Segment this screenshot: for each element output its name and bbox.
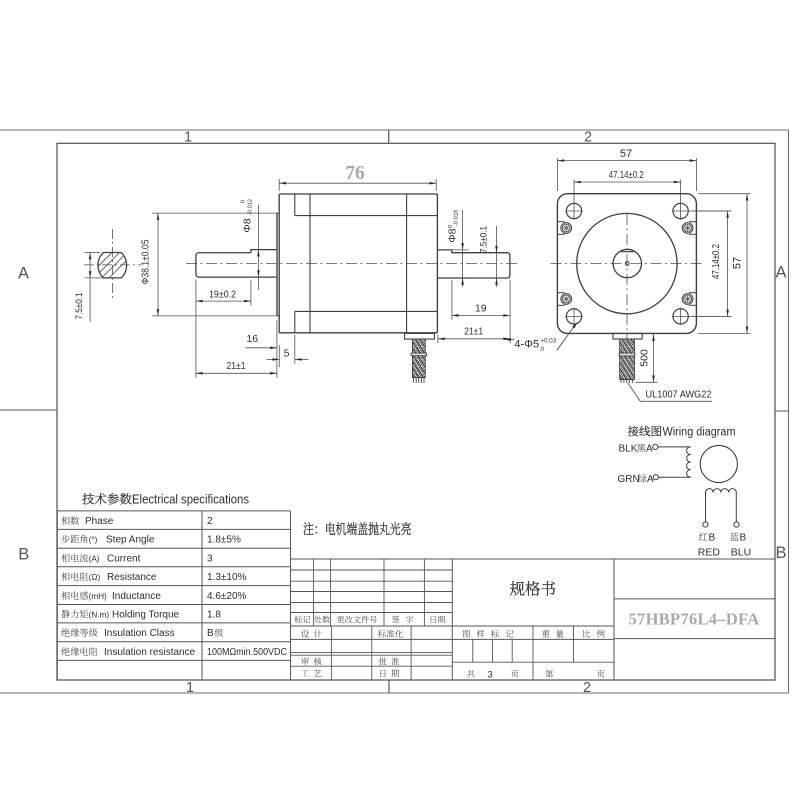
svg-text:日期: 日期 (429, 614, 445, 625)
svg-text:(°): (°) (89, 536, 98, 545)
front view shaft circle (613, 249, 641, 277)
front view cable braid (620, 339, 635, 380)
svg-text:76: 76 (345, 163, 365, 184)
dimension 7.5±0.1 line and arrows (89, 253, 91, 323)
cap screw top-left (561, 223, 572, 234)
svg-text:GRN: GRN (618, 474, 640, 485)
front view centerline horizontal (551, 263, 705, 265)
dimension 76 line and arrows (279, 182, 436, 184)
svg-text:规格书: 规格书 (510, 577, 557, 600)
dimension Φ8-0.012 line and arrows (257, 205, 259, 291)
front view centerline vertical (626, 214, 628, 341)
svg-text:签: 签 (392, 614, 400, 625)
front view center mark (625, 262, 629, 266)
label 4-Φ5 leader arrow to hole (557, 325, 576, 351)
wire coil to RED terminal (705, 493, 707, 522)
title block 设计 row (301, 628, 404, 640)
svg-text:19: 19 (475, 303, 487, 315)
wiring terminal BLK circle (653, 444, 658, 449)
wiring terminal GRN circle (653, 475, 658, 480)
front view cable wire ends (620, 380, 622, 383)
svg-text:57HBP76L4–DFA: 57HBP76L4–DFA (628, 610, 759, 629)
svg-text:技术参数: 技术参数 (82, 490, 132, 508)
dimension 19 rear line and arrows (452, 314, 510, 316)
svg-text:工: 工 (301, 668, 310, 680)
svg-text:绝缘电阻: 绝缘电阻 (61, 644, 98, 658)
title block 第页 (545, 668, 605, 680)
svg-text:(mH): (mH) (89, 592, 107, 601)
svg-text:Inductance: Inductance (112, 591, 161, 602)
boss corner top (277, 212, 279, 214)
inner drawing frame (57, 143, 775, 680)
sheet bottom edge line (0, 692, 789, 694)
svg-text:BLU: BLU (731, 546, 751, 558)
svg-text:Resistance: Resistance (107, 572, 157, 583)
dimension 57 right extension lines (698, 193, 751, 195)
cap screw bottom-right (682, 294, 693, 305)
svg-text:+0.03: +0.03 (541, 337, 557, 344)
svg-text:2: 2 (584, 130, 592, 146)
spec row Insulation Class (61, 625, 223, 639)
dimension 21±1 front extension lines (195, 306, 197, 378)
svg-text:Φ8: Φ8 (446, 228, 458, 242)
dimension 500 extension line (636, 381, 658, 383)
svg-text:第: 第 (545, 668, 554, 680)
svg-text:(N.m): (N.m) (89, 611, 110, 620)
side view cable braid (413, 339, 426, 377)
svg-text:-0.012: -0.012 (248, 199, 254, 215)
svg-text:核: 核 (314, 656, 323, 668)
svg-text:A: A (775, 264, 786, 282)
dimension Φ38.1 line and arrows (157, 213, 159, 316)
spec table grid (57, 511, 291, 680)
svg-text:相电流: 相电流 (61, 550, 89, 564)
dimension 19 rear extension lines (451, 280, 453, 320)
front view shaft flat chord (621, 251, 634, 253)
svg-text:B: B (775, 544, 786, 562)
svg-text:2: 2 (207, 516, 213, 527)
mounting hole bottom-left (566, 309, 581, 324)
shaft section centerline horizontal (84, 264, 141, 266)
svg-text:B: B (709, 532, 716, 543)
dimension 5 extension line (294, 335, 296, 364)
svg-text:3: 3 (207, 553, 213, 564)
svg-text:Φ8: Φ8 (242, 218, 254, 232)
svg-text:B: B (18, 546, 29, 564)
svg-text:A: A (646, 443, 653, 454)
rear end cap inner edge (406, 194, 408, 333)
revision row labels (294, 614, 445, 625)
svg-text:B: B (207, 628, 214, 639)
wire coil to BLU terminal (735, 493, 737, 522)
svg-text:5: 5 (284, 347, 290, 359)
svg-text:3: 3 (488, 670, 493, 681)
svg-text:Holding Torque: Holding Torque (112, 610, 180, 621)
svg-text:4-Φ5: 4-Φ5 (514, 338, 539, 350)
svg-text:标准化: 标准化 (378, 628, 404, 640)
svg-text:1: 1 (184, 130, 192, 146)
svg-text:7.5±0.1: 7.5±0.1 (479, 226, 490, 253)
svg-text:接线图: 接线图 (628, 423, 663, 439)
dimension 500 line and arrows (653, 334, 655, 382)
svg-text:绿: 绿 (638, 471, 648, 485)
svg-text:黑: 黑 (637, 440, 647, 454)
svg-text:级: 级 (215, 626, 224, 639)
svg-text:标记: 标记 (294, 614, 310, 625)
title block grid (291, 559, 775, 680)
boss corner bottom (277, 315, 279, 317)
spec row Insulation resistance (61, 644, 287, 658)
svg-text:静力矩: 静力矩 (61, 607, 89, 621)
spec row Resistance (61, 569, 247, 583)
svg-text:1.8: 1.8 (207, 610, 221, 621)
svg-text:绝缘等级: 绝缘等级 (61, 625, 98, 639)
svg-text:相电阻: 相电阻 (61, 569, 89, 583)
svg-text:1.8±5%: 1.8±5% (207, 535, 241, 546)
side view cable wire ends (413, 378, 415, 383)
svg-text:19±0.2: 19±0.2 (209, 290, 236, 301)
svg-text:0: 0 (241, 200, 247, 203)
svg-text:100MΩmin.500VDC: 100MΩmin.500VDC (207, 647, 287, 658)
svg-text:蓝: 蓝 (730, 529, 740, 543)
svg-text:日: 日 (379, 668, 388, 680)
svg-text:页: 页 (511, 668, 520, 680)
side view cable clamp band (411, 353, 427, 356)
svg-text:A: A (647, 474, 654, 485)
svg-text:UL1007 AWG22: UL1007 AWG22 (646, 389, 712, 401)
svg-text:准: 准 (391, 656, 400, 668)
title block 图样标记 labels (462, 628, 605, 640)
dimension 57 right line and arrows (746, 194, 748, 334)
dimension 5 lines and arrows (266, 358, 279, 360)
svg-text:21±1: 21±1 (227, 360, 246, 372)
dimension 47.14±0.2 right extension lines (692, 210, 731, 212)
dimension 57 top line and arrows (557, 160, 696, 162)
motor body top line (279, 193, 437, 195)
dimension 47.14±0.2 right line and arrows (727, 211, 729, 316)
svg-text:57: 57 (620, 148, 632, 160)
motor rear face line (436, 194, 438, 333)
svg-text:图: 图 (462, 628, 471, 640)
svg-text:1: 1 (186, 680, 194, 696)
spec row Inductance (61, 588, 247, 602)
title block 工艺 row (301, 668, 400, 680)
dimension 21±1 rear line and arrows (438, 338, 510, 340)
svg-text:500: 500 (639, 349, 651, 367)
svg-text:重: 重 (542, 628, 551, 640)
svg-text:RED: RED (698, 546, 721, 558)
svg-text:标: 标 (491, 628, 500, 640)
svg-text:7.5±0.1: 7.5±0.1 (74, 293, 85, 320)
dimension 57 top extension lines (556, 158, 558, 191)
svg-text:Step Angle: Step Angle (106, 535, 155, 546)
dimension Φ38.1 extension lines (152, 212, 277, 214)
motor boss face line (276, 213, 278, 316)
front end cap inner edge (294, 194, 296, 216)
side view cable tab (405, 333, 435, 339)
wiring terminal RED circle (703, 522, 708, 527)
wire BLK to coil (658, 446, 691, 448)
svg-text:47.14±0.2: 47.14±0.2 (609, 170, 644, 181)
svg-text:量: 量 (556, 628, 565, 640)
svg-text:共: 共 (467, 668, 476, 680)
svg-text:Current: Current (107, 553, 141, 564)
dimension 7.5±0.1 extension lines (84, 252, 100, 254)
spec row Step Angle (61, 532, 241, 546)
shaft section centerline vertical (111, 229, 113, 299)
dimension 19±0.2 extension lines (195, 280, 197, 306)
svg-text:Insulation resistance: Insulation resistance (104, 647, 196, 658)
cap screw bottom-left (561, 294, 572, 305)
svg-text:1.3±10%: 1.3±10% (207, 572, 247, 583)
spec row Current (61, 550, 213, 564)
mounting hole top-left (566, 203, 581, 218)
svg-text:Phase: Phase (85, 516, 114, 527)
svg-text:Insulation Class: Insulation Class (104, 628, 175, 639)
svg-text:-0.018: -0.018 (454, 210, 460, 226)
wire GRN to coil (658, 476, 690, 478)
label UL1007 AWG22 leader (628, 383, 712, 401)
front view cable clamp band (619, 353, 635, 356)
zone tick bottom (388, 680, 390, 693)
dimension 47.14±0.2 top line and arrows (574, 181, 681, 183)
svg-text:B: B (740, 532, 747, 543)
svg-text:(A): (A) (89, 554, 100, 563)
svg-text:审: 审 (301, 656, 310, 668)
zone tick right (775, 410, 789, 412)
front view boss circle (577, 213, 677, 313)
mounting hole top-right (673, 203, 688, 218)
svg-text:0: 0 (541, 346, 545, 353)
motor rotor circle (700, 445, 737, 482)
dimension 16 line and arrow (245, 347, 277, 349)
svg-text:相电感: 相电感 (61, 588, 89, 602)
svg-text:页: 页 (597, 668, 606, 680)
phase B coil (706, 489, 737, 493)
shaft section hatching (90, 243, 133, 286)
spec row Holding Torque (61, 607, 221, 621)
wiring terminal BLU circle (734, 522, 739, 527)
svg-text:记: 记 (505, 628, 514, 640)
svg-text:处数: 处数 (314, 614, 330, 625)
front view flange square (557, 194, 696, 334)
svg-text:4.6±20%: 4.6±20% (207, 591, 247, 602)
cap screw top-right (682, 223, 693, 234)
svg-text:2: 2 (583, 680, 591, 696)
motor lamination top line (295, 215, 438, 217)
dimension 21±1 front line and arrows (196, 372, 277, 374)
svg-text:设: 设 (301, 628, 310, 640)
svg-text:样: 样 (476, 628, 485, 640)
title block 审核 row (301, 656, 400, 668)
mounting hole bottom-right (673, 309, 688, 324)
svg-text:红: 红 (699, 529, 709, 543)
svg-text:21±1: 21±1 (464, 326, 483, 338)
dimension 21±1 rear extension line (437, 335, 439, 344)
small arrow at rear 21 dimension (505, 339, 515, 341)
phase A coil (687, 447, 691, 477)
svg-text:BLK: BLK (619, 443, 638, 454)
svg-text:计: 计 (314, 628, 323, 640)
dimension 19±0.2 line and arrows (196, 300, 251, 302)
sheet right edge line (788, 130, 790, 693)
svg-text:字: 字 (406, 614, 414, 625)
svg-text:A: A (18, 265, 29, 283)
svg-text:更改文件号: 更改文件号 (337, 614, 378, 625)
svg-text:47.14±0.2: 47.14±0.2 (711, 244, 722, 279)
svg-text:批: 批 (379, 656, 388, 668)
svg-text:Wiring diagram: Wiring diagram (663, 426, 736, 438)
svg-text:16: 16 (246, 333, 258, 345)
rear shaft Φ8 extension lines (452, 249, 469, 251)
title block 共3页 (467, 668, 520, 681)
motor lamination bottom line (295, 310, 438, 312)
side view centerline (186, 263, 519, 265)
dimension 76 extension lines (278, 179, 280, 191)
rear shaft outline (437, 250, 510, 278)
dimension Φ8-0.018 rear line and arrows (462, 210, 464, 287)
motor flange face line (278, 194, 280, 333)
sheet top edge line (0, 129, 789, 131)
zone tick left (0, 409, 57, 411)
svg-text:注：电机端盖抛丸光亮: 注：电机端盖抛丸光亮 (303, 519, 412, 539)
svg-text:57: 57 (732, 257, 744, 269)
svg-text:Electrical specifications: Electrical specifications (132, 493, 249, 507)
svg-text:比: 比 (582, 628, 591, 640)
svg-text:相数: 相数 (61, 513, 79, 527)
dimension 7.5±0.1 rear line and arrows (496, 226, 498, 287)
front shaft outline (196, 250, 277, 278)
spec row Phase (61, 513, 213, 527)
svg-text:期: 期 (391, 668, 400, 680)
motor body bottom line (279, 332, 437, 334)
svg-text:Φ38.1±0.05: Φ38.1±0.05 (141, 239, 152, 284)
zone tick top (388, 130, 390, 143)
svg-text:(Ω): (Ω) (89, 573, 101, 582)
svg-text:艺: 艺 (314, 668, 323, 680)
svg-text:步距角: 步距角 (61, 532, 89, 546)
svg-text:例: 例 (597, 628, 606, 640)
front view cable tab (613, 333, 642, 339)
front flange rear edge (309, 194, 311, 333)
